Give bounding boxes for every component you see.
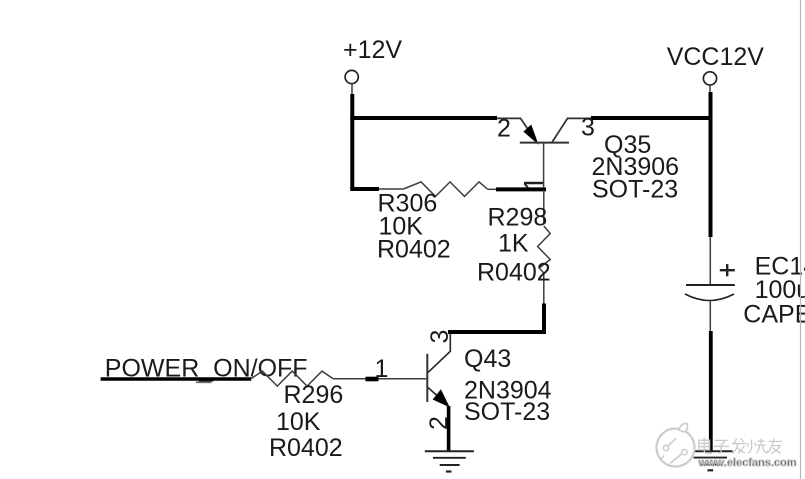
watermark text shao (烧) [747, 438, 767, 453]
ground symbol (capacitor) [688, 451, 733, 470]
power terminal +12V circle [345, 70, 358, 83]
transistor Q35 base bar [520, 142, 569, 144]
pin 1 stub of Q43 [366, 377, 379, 382]
capacitor EC14 top plate [686, 284, 735, 286]
wire VCC12V vertical [709, 92, 713, 237]
svg-text:R0402: R0402 [269, 434, 343, 462]
svg-text:3: 3 [581, 114, 595, 142]
transistor Q35 pin 1 label (rotated) [524, 183, 543, 188]
svg-text:CAPE: CAPE [743, 300, 805, 328]
transistor Q35 emitter stub [497, 118, 536, 141]
capacitor EC14 plus sign [720, 264, 735, 276]
wire capacitor bottom lead [709, 300, 711, 332]
image right border line [800, 0, 802, 479]
watermark text fa (发) [732, 438, 747, 453]
transistor Q43 emitter [428, 388, 448, 406]
wire to Q43 base [379, 378, 427, 380]
wire R306 left lead [379, 188, 403, 190]
svg-text:VCC12V: VCC12V [667, 43, 765, 71]
watermark text zi (子) [714, 440, 730, 453]
watermark text dian (电) [699, 438, 712, 454]
ground symbol (Q43) [425, 451, 474, 471]
resistor R306 [403, 182, 487, 197]
svg-text:SOT-23: SOT-23 [592, 176, 678, 204]
svg-text:1K: 1K [498, 230, 529, 258]
svg-text:Q43: Q43 [464, 345, 511, 373]
wire R298 top lead [543, 190, 545, 224]
wire +12V rail left segment [350, 116, 497, 120]
wire stub to R306 [350, 187, 379, 191]
svg-text:R0402: R0402 [477, 259, 551, 287]
wire node R306 to Q35 base (thick bar) [496, 187, 546, 191]
vcc terminal VCC12V circle [703, 72, 716, 85]
wire VCC to capacitor thin [709, 237, 711, 285]
label POWER_ON underscore visible below wire [196, 381, 212, 383]
transistor Q35 collector [552, 118, 591, 142]
transistor Q43 emitter arrow [434, 390, 449, 406]
wire R298 to Q43 collector horizontal [448, 330, 546, 334]
resistor R298 [538, 226, 551, 273]
svg-text:R0402: R0402 [377, 236, 451, 264]
wire R296 right lead [333, 378, 366, 380]
capacitor EC14 bottom plate (arc) [685, 294, 734, 301]
wire capacitor to ground [709, 331, 713, 452]
svg-text:www.elecfans.com: www.elecfans.com [698, 457, 797, 469]
transistor Q35 base lead [543, 143, 545, 188]
svg-text:+12V: +12V [343, 36, 402, 64]
wire from +12V terminal [351, 84, 353, 95]
svg-text:R296: R296 [284, 381, 344, 409]
wire +12V rail right segment [591, 116, 713, 120]
wire Q43 emitter to ground [447, 406, 451, 452]
svg-text:R298: R298 [488, 204, 548, 232]
transistor Q43 base bar [426, 354, 428, 402]
watermark logo circle [657, 423, 695, 466]
wire R306 right lead [488, 188, 497, 190]
wire R298 to Q43 collector vertical [542, 304, 546, 333]
watermark text you (友) [768, 438, 782, 453]
wire +12V vertical drop [350, 94, 354, 189]
transistor Q35 emitter arrow [525, 126, 537, 142]
svg-text:10K: 10K [276, 408, 321, 436]
transistor Q43 collector [428, 334, 450, 373]
wire R298 bottom lead [543, 272, 545, 305]
resistor R296 [251, 371, 333, 386]
svg-text:SOT-23: SOT-23 [464, 398, 550, 426]
wire from VCC12V terminal [709, 85, 711, 94]
wire POWER_ON/OFF net [101, 377, 252, 380]
